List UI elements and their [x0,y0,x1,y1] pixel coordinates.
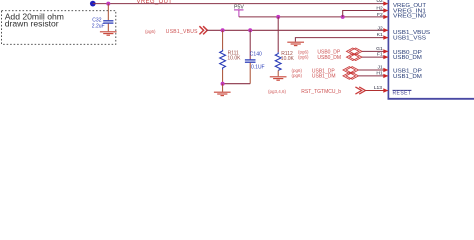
wire USB1_DM to pin H1 [359,75,388,77]
junction R112 tap [276,15,280,19]
svg-text:drawn resistor: drawn resistor [5,18,59,28]
svg-text:(pg3,4,6): (pg3,4,6) [268,89,287,94]
net label USB1_DP [292,68,336,74]
svg-text:J1: J1 [378,65,383,71]
capacitor C140 [245,30,265,83]
svg-text:H1: H1 [376,70,383,76]
svg-text:2.2uF: 2.2uF [92,23,105,29]
net label USB0_DP [298,49,341,55]
wire VREG_OUT [93,3,388,5]
net label USB0_DM [298,55,341,61]
junction C32 tap [106,2,110,6]
wire USB0_DP to pin G1 [362,50,388,52]
wire USB1_DP to pin J1 [359,69,388,71]
pin arrowheads [383,1,388,92]
ground (USB1_VSS) [287,42,304,45]
svg-text:RST_TGTMCU_b: RST_TGTMCU_b [301,89,341,95]
wire RST to pin L13 [365,90,387,92]
wire ground stub [222,84,224,92]
ground (C32) [100,32,117,35]
svg-text:F1: F1 [377,52,383,58]
svg-text:L13: L13 [374,85,382,91]
svg-text:10.0K: 10.0K [281,56,295,62]
svg-text:J2: J2 [378,26,383,32]
wire USB1_VBUS to pin J2 [207,29,388,31]
wire P5V rail to VREG_IN0 pin F2 [239,16,388,18]
wire bottom rail R111 to C140 [223,83,251,85]
svg-text:(pg6): (pg6) [145,29,156,34]
svg-text:0.1UF: 0.1UF [251,64,265,70]
pin name RESET (active low, overline) [393,90,412,96]
net label USB1_VBUS [145,26,207,35]
svg-text:H2: H2 [376,5,383,11]
resistor R112 [275,17,294,76]
net label USB1_DM [292,73,336,79]
node blue dot (VREG_OUT net end) [90,1,96,7]
svg-text:RESET: RESET [393,91,412,97]
power symbol P5V [234,5,244,17]
svg-text:VREG_IN0: VREG_IN0 [393,13,427,19]
svg-text:10.0K: 10.0K [227,55,241,61]
ground (R112) [270,77,287,80]
junction bottom rail [221,82,225,86]
IC edge (left boundary of MCU symbol) [387,0,389,99]
svg-text:USB1_VBUS: USB1_VBUS [166,29,198,35]
svg-text:USB1_DM: USB1_DM [312,74,336,80]
ground (R111/C140) [214,92,231,95]
diff pair off-page symbol USB1 [343,67,359,80]
wire USB0_DM to pin F1 [362,56,388,58]
diff pair off-page symbol USB0 [347,48,363,61]
junction VREG_IN1 tap [341,15,345,19]
svg-text:(pg6): (pg6) [298,55,309,60]
svg-text:F2: F2 [377,12,383,18]
junction R111 tap [221,28,225,32]
svg-text:G1: G1 [376,46,383,52]
svg-text:(pg6): (pg6) [292,73,303,78]
capacitor C32 [92,4,114,32]
svg-text:(pg6): (pg6) [298,49,309,54]
svg-text:USB1_VSS: USB1_VSS [393,35,426,41]
svg-text:USB0_DM: USB0_DM [393,55,422,61]
svg-text:C140: C140 [250,52,262,58]
svg-text:USB0_DM: USB0_DM [317,55,341,61]
IC bottom edge [388,98,474,100]
wire USB1_VSS to pin K1 [295,38,387,42]
svg-text:USB1_DM: USB1_DM [393,74,422,80]
svg-text:K1: K1 [377,32,383,38]
note box [2,11,116,45]
wire VREG_IN1 stub to pin H2 [343,11,388,17]
resistor R111 [220,30,241,83]
svg-text:U2: U2 [376,0,383,4]
net label RST_TGTMCU_b [268,87,365,95]
junction C140 tap [248,28,252,32]
